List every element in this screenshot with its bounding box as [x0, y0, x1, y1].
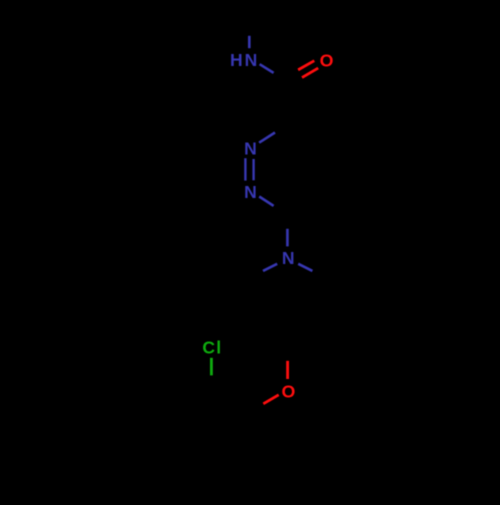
wire N1=N2 double bond left line (blue)	[244, 158, 246, 180]
svg-text:C: C	[202, 337, 215, 357]
svg-text:N: N	[282, 248, 295, 268]
wire bond Npip-C6 right (N half, blue)	[298, 264, 312, 271]
wire bond Npip-C2 left (N half, blue)	[263, 264, 277, 271]
svg-text:O: O	[282, 381, 296, 401]
wire bond O-C1 aryl (O half, red)	[263, 395, 278, 404]
wire N1=N2 double bond right line (blue)	[252, 159, 254, 180]
wire bond Cl-C2 aryl (Cl half, green)	[210, 358, 213, 376]
svg-text:O: O	[320, 50, 334, 70]
svg-text:N: N	[244, 182, 257, 202]
wire bond C4pip-O ether (O half, red)	[286, 361, 289, 379]
wire bond HN-C carbonyl (N half, blue)	[260, 64, 274, 73]
svg-text:l: l	[216, 337, 221, 357]
wire bond N-CH3 (methyl half, blue)	[248, 36, 251, 48]
wire bond N1-C6 ring (N half, blue)	[259, 133, 275, 143]
svg-text:N: N	[245, 50, 258, 70]
svg-text:H: H	[230, 50, 243, 70]
wire bond N2-C3 ring (N half, blue)	[259, 197, 273, 206]
svg-text:N: N	[244, 138, 257, 158]
wire C=O double bond lower line (O half, red)	[302, 68, 318, 78]
wire C=O double bond upper line (O half, red)	[298, 61, 314, 70]
wire bond C3-Npip (N half, blue)	[286, 229, 289, 247]
